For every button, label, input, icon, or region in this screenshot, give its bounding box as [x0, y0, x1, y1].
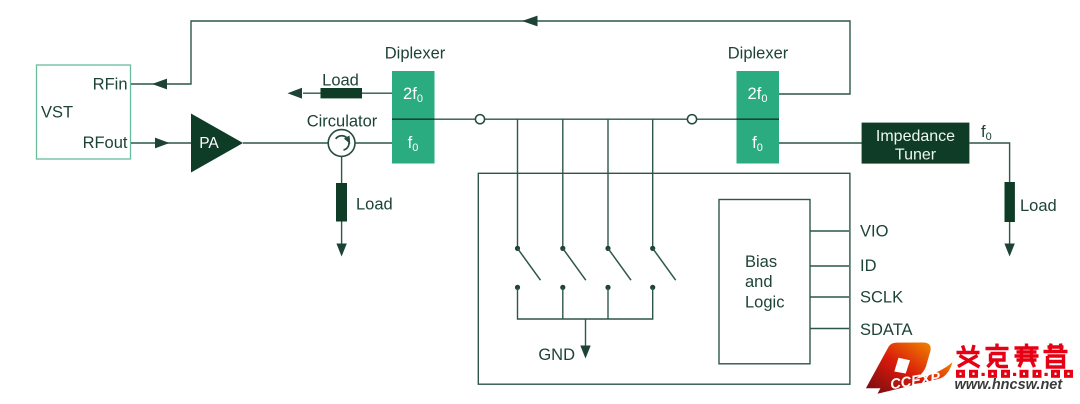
node circle A (left) [475, 115, 484, 124]
wire PA to circulator [243, 142, 328, 144]
logo ACCEXP stylized A [866, 343, 953, 394]
svg-text:Load: Load [356, 196, 393, 214]
svg-text:VIO: VIO [860, 223, 889, 241]
switch S1 [515, 246, 541, 290]
wire SCLK [810, 296, 849, 298]
node circle B (right) [687, 115, 696, 124]
diplexer D1 [385, 44, 446, 163]
wire drop to switch 4 [652, 119, 654, 248]
svg-text:RFout: RFout [83, 134, 128, 152]
char ai [957, 345, 980, 367]
svg-text:and: and [745, 273, 773, 291]
ground GND [538, 319, 590, 364]
impedance tuner U3 [862, 123, 970, 164]
wire tuner to right load [969, 143, 1009, 183]
arrow into RFin [152, 79, 167, 90]
char sai [1015, 344, 1039, 368]
wire switch commons to ground bus [518, 287, 653, 319]
logo text subtitle [956, 370, 1073, 378]
svg-text:ID: ID [860, 257, 877, 275]
svg-text:PA: PA [199, 135, 219, 152]
circulator [307, 113, 378, 157]
svg-text:Tuner: Tuner [895, 147, 937, 164]
load L1 (left of diplexer1) [288, 71, 363, 98]
svg-text:Circulator: Circulator [307, 113, 378, 131]
svg-text:Load: Load [322, 71, 359, 89]
char pu [1044, 344, 1068, 368]
wire circulator to diplexer1 f0 [355, 142, 392, 144]
bias and logic block U2 [719, 200, 810, 364]
svg-text:www.hncsw.net: www.hncsw.net [955, 377, 1064, 393]
arrow on top feedback wire [522, 16, 538, 27]
wire circulator down to load [341, 156, 343, 184]
wire drop to switch 1 [517, 119, 519, 248]
VST box U1 [37, 65, 131, 159]
logo text chinese (approximated strokes) [957, 344, 1068, 368]
svg-text:Diplexer: Diplexer [728, 44, 789, 62]
wire main bus between diplexers [435, 118, 737, 120]
wire S2 common stub [562, 287, 564, 319]
wire diplexer1 2f0 to left load [303, 92, 392, 94]
svg-text:GND: GND [538, 346, 575, 364]
svg-text:Load: Load [1020, 197, 1057, 215]
svg-text:Diplexer: Diplexer [385, 44, 446, 62]
wire S3 common stub [607, 287, 609, 319]
arrow RFout [155, 138, 170, 149]
wire ID [810, 265, 849, 267]
outer shunt-switch module box [478, 173, 850, 384]
char ke [986, 344, 1009, 368]
diplexer D2 [728, 44, 789, 163]
load L3 (right) [1004, 182, 1056, 257]
svg-text:VST: VST [41, 104, 73, 122]
wire RFout to PA [131, 142, 191, 144]
wire diplexer2 f0 to impedance tuner [779, 142, 862, 144]
wire drop to switch 3 [607, 119, 609, 248]
svg-text:RFin: RFin [93, 76, 128, 94]
svg-text:Bias: Bias [745, 253, 777, 271]
switch S3 [605, 246, 631, 290]
wire SDATA [810, 328, 849, 330]
wire drop to switch 2 [562, 119, 564, 248]
svg-text:SCLK: SCLK [860, 289, 903, 307]
switch S4 [650, 246, 676, 290]
wire feedback top loop [131, 21, 850, 94]
switch S2 [560, 246, 586, 290]
svg-text:SDATA: SDATA [860, 321, 913, 339]
svg-text:Impedance: Impedance [876, 128, 955, 145]
wire VIO [810, 230, 849, 232]
amplifier PA [191, 114, 243, 173]
load L2 (below circulator) [336, 183, 393, 257]
svg-text:Logic: Logic [745, 294, 784, 312]
